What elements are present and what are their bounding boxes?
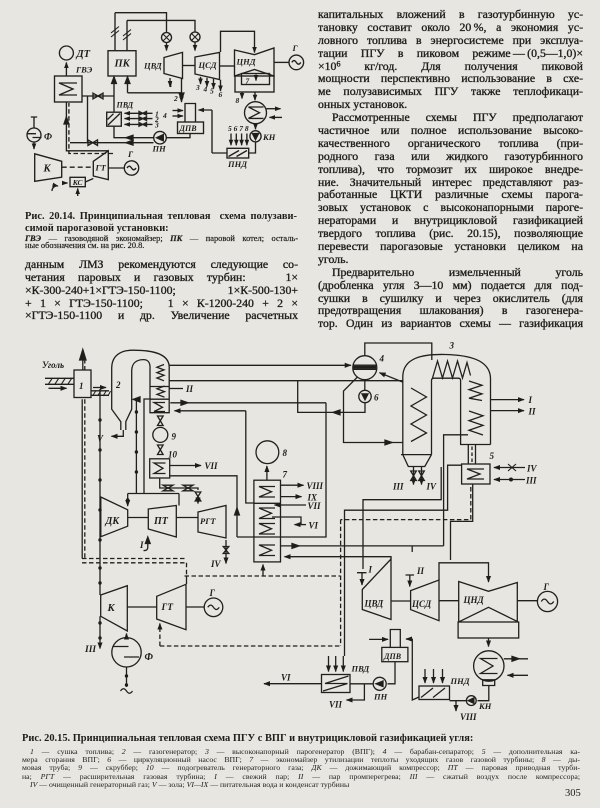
generator G (gas) [124, 161, 138, 175]
main steam run [115, 13, 167, 33]
svg-text:2: 2 [115, 380, 121, 390]
extraction drop to PVD [344, 557, 346, 656]
extraction 3 [200, 77, 202, 84]
svg-text:3: 3 [195, 83, 200, 92]
extraction 8 [241, 92, 243, 99]
svg-text:ПТ: ПТ [153, 516, 169, 527]
shaft CSD-CND [220, 65, 235, 67]
svg-text:Г: Г [543, 582, 550, 592]
GVE water drop pipe [87, 96, 89, 143]
sigma cooler [154, 403, 165, 412]
svg-text:V: V [97, 434, 104, 444]
scrubber 9 [153, 427, 168, 442]
VPG right wall [490, 378, 492, 445]
svg-text:VII: VII [205, 461, 219, 471]
steam into deaerator [369, 638, 388, 640]
valve below scrubber [158, 445, 164, 455]
wire filter to compressor [33, 142, 35, 149]
CVD exhaust line to economizer [285, 557, 392, 559]
heater steam arrows 5-8 [230, 134, 232, 146]
syngas cooler coil [157, 365, 164, 381]
economizer 7 [254, 480, 281, 562]
fig 20.15 caption [22, 734, 582, 744]
reheat II stub [406, 575, 415, 587]
dotted gas line to booster DK [135, 399, 137, 493]
svg-text:I: I [368, 565, 373, 575]
wire GT to generator [108, 167, 124, 169]
LP turbine CND2 [459, 582, 518, 623]
fresh steam I line [363, 467, 441, 569]
stack 8 [256, 441, 279, 464]
air intake [126, 667, 128, 687]
condensate riser PND to DPV [412, 639, 419, 700]
riser into drum [380, 373, 403, 382]
svg-text:VII: VII [329, 700, 343, 710]
bypass gas duct dashed [69, 103, 113, 154]
shaft K-GT2 [127, 606, 156, 608]
wire PND to deaerator [199, 110, 228, 153]
svg-text:КН: КН [478, 701, 492, 711]
HP turbine CVD [164, 52, 183, 78]
svg-text:5: 5 [210, 87, 214, 96]
arch superheater coil [433, 361, 471, 378]
svg-text:II: II [528, 407, 537, 417]
svg-text:К: К [43, 164, 52, 175]
blowdown III [413, 467, 415, 485]
svg-text:VIII: VIII [307, 481, 324, 491]
shaft DK-PT [128, 517, 149, 519]
air filter F1 [27, 128, 41, 142]
svg-text:6: 6 [219, 90, 223, 99]
stream VIII [281, 484, 304, 486]
steam line drum to superheater [365, 343, 432, 360]
page number [565, 788, 581, 799]
economizer steam line to reheat [281, 545, 444, 547]
stream VI out [264, 683, 322, 685]
coal line below dryer [81, 399, 83, 558]
svg-text:ГТ: ГТ [161, 603, 175, 613]
svg-text:4: 4 [162, 111, 167, 120]
svg-text:Ф: Ф [44, 133, 52, 143]
stack DT [59, 46, 73, 60]
air vent III down [99, 616, 101, 648]
flue to stack [266, 466, 268, 480]
heater steam arrows [424, 669, 426, 683]
svg-text:II: II [416, 566, 425, 576]
svg-text:2: 2 [173, 94, 178, 103]
feed pump PN [154, 131, 167, 144]
svg-text:ПВД: ПВД [116, 101, 134, 110]
downcomer to furnace [344, 377, 403, 443]
GT exhaust duct [66, 102, 108, 151]
vent arrow up [82, 353, 84, 370]
stream VIII down [455, 701, 457, 711]
svg-text:8: 8 [236, 96, 240, 105]
right text column [318, 8, 583, 330]
wire valve to HPT [166, 43, 168, 51]
gas line to RGT [160, 478, 198, 490]
drive steam turbine PT [148, 506, 176, 538]
svg-text:Г: Г [209, 588, 216, 598]
figure 20.15 schematic [0, 340, 600, 722]
fresh steam I stub [357, 573, 367, 585]
feedwater line to GVE [70, 142, 154, 144]
gas IV into combustor [494, 467, 525, 469]
wire GVE to stack [65, 63, 67, 77]
gasifier vessel 2 [112, 350, 170, 368]
ash outlet V [112, 430, 124, 436]
generator G (steam) [289, 55, 304, 70]
dashed recycle left [84, 399, 86, 558]
shaft K-GT [62, 166, 94, 168]
svg-text:ГВЭ: ГВЭ [75, 65, 93, 75]
bypass jog [272, 517, 301, 525]
dashed gas into GT [159, 624, 161, 647]
svg-text:ПНД: ПНД [450, 676, 471, 686]
wire KC to GT [85, 179, 93, 183]
hot gas from combustor down [451, 484, 473, 560]
svg-text:6: 6 [374, 393, 379, 403]
extraction line 2 to PVD [125, 118, 153, 120]
extraction line 3 to PVD [125, 123, 153, 125]
svg-text:ПН: ПН [373, 692, 388, 702]
figure 20.14 schematic [0, 0, 310, 205]
gas duct to combustor [468, 445, 475, 465]
dashed runs bottom [82, 559, 187, 563]
cold reheat line to VPG [345, 465, 462, 557]
wire into RGT [197, 501, 199, 504]
wire pump to PND [249, 142, 256, 153]
coil 2 [157, 386, 165, 397]
wire filter to K [126, 634, 128, 638]
svg-text:ПК: ПК [114, 59, 131, 70]
valve [183, 485, 193, 491]
steam boiler PK [108, 51, 136, 76]
stop valve 2 [190, 32, 200, 42]
condensate pump KN [250, 131, 261, 142]
shaft CND-generator [274, 61, 289, 63]
compressor K [35, 154, 62, 182]
cooling water in [508, 674, 529, 676]
wire condenser to pump [255, 124, 257, 130]
water loop piping [281, 403, 327, 537]
valve [93, 93, 103, 99]
extraction 6 [220, 80, 222, 91]
wire GT2 to generator [186, 606, 204, 608]
LP turbine CND [235, 48, 275, 76]
svg-text:II: II [185, 384, 194, 394]
cooling water in [270, 116, 283, 118]
circulation pump 6 [359, 390, 371, 402]
extraction 5 [213, 79, 215, 89]
wire DPV to PN [388, 662, 396, 684]
svg-text:ДТ: ДТ [76, 49, 91, 60]
svg-text:4: 4 [203, 85, 208, 94]
stream VI in [295, 524, 307, 526]
gas line heater 10 to water loop [170, 476, 237, 537]
svg-text:IV: IV [426, 482, 438, 492]
wire drum to pump 6 [364, 380, 366, 391]
svg-text:1: 1 [169, 80, 173, 89]
circulation line to coils [298, 381, 365, 413]
main compressor K [101, 586, 128, 631]
heater steam arrows [328, 656, 330, 672]
shaft PT-RGT [176, 517, 198, 519]
heating steam 4 arrows [173, 110, 184, 112]
shaft CVD-CSD [183, 65, 196, 67]
wire CND to condenser [488, 638, 490, 647]
svg-text:К: К [107, 603, 116, 614]
stream VII in [275, 504, 307, 506]
reheat II out [491, 410, 525, 412]
booster compressor DK [101, 497, 128, 537]
clean gas IV out of RGT [225, 540, 227, 564]
air III into combustor [494, 479, 525, 481]
expansion gas turbine RGT [198, 506, 226, 539]
svg-text:III: III [525, 476, 537, 486]
wire valve to IPT [194, 42, 196, 51]
LP heater PND [227, 148, 249, 158]
main steam riser [114, 13, 116, 51]
svg-text:Г: Г [127, 149, 134, 159]
fuel arrow into KC [77, 189, 79, 197]
blowdown IV [421, 467, 423, 485]
svg-text:VIII: VIII [460, 712, 477, 722]
fresh steam I out [491, 399, 525, 401]
air filter F [112, 638, 141, 667]
feedwater PN to PVD [114, 126, 154, 138]
VPG left wall [402, 376, 404, 455]
svg-text:ДПВ: ДПВ [383, 652, 402, 661]
svg-text:Уголь: Уголь [42, 360, 64, 370]
VPG bottom cone [401, 455, 432, 467]
crossover pipe [221, 31, 255, 52]
left column paragraph [25, 258, 298, 322]
svg-text:ЦНД: ЦНД [463, 595, 485, 605]
deaerator DPV [185, 104, 196, 123]
generator G gas [204, 598, 223, 617]
feedwater VII branch [347, 684, 365, 700]
wire K to KC [62, 182, 68, 184]
wire CND to condenser [254, 92, 256, 100]
svg-text:РГТ: РГТ [200, 516, 216, 526]
dryer box 1 [74, 370, 91, 398]
svg-text:4: 4 [379, 354, 385, 364]
wire DPV to feed pump [167, 134, 190, 138]
condenser housing [235, 76, 274, 92]
HP heater PVD2 [322, 675, 351, 693]
extraction 7 arrow [255, 75, 257, 81]
svg-text:5: 5 [490, 451, 495, 461]
svg-text:ЦСД: ЦСД [411, 599, 432, 609]
svg-text:ПНД: ПНД [227, 159, 248, 169]
IP turbine CSD2 [411, 580, 439, 621]
scrubber column 9 top [150, 367, 169, 413]
break mark [111, 27, 119, 38]
VPG inner box [432, 378, 491, 454]
svg-text:7: 7 [246, 77, 250, 86]
gas turbine GT [93, 151, 108, 180]
HP turbine CVD2 [362, 559, 391, 620]
condenser [245, 102, 267, 124]
svg-text:ЦНД: ЦНД [236, 57, 257, 67]
hot reheat line from VPG [444, 435, 468, 546]
LP heater PND2 [419, 686, 450, 700]
dried coal band to gasifier [93, 387, 106, 389]
svg-text:I: I [528, 395, 533, 405]
extraction 4 [206, 78, 208, 87]
svg-text:ЦСД: ЦСД [198, 60, 218, 70]
VPG steam generator 3 dome [403, 354, 491, 378]
condenser [474, 651, 504, 681]
feed pump PN2 [373, 677, 386, 690]
compressed air line III [99, 389, 101, 595]
inner exhaust box [242, 74, 270, 85]
fig 20.14 caption [25, 211, 297, 236]
wire PVD to boiler [113, 77, 115, 112]
svg-text:I: I [139, 540, 144, 550]
svg-text:Ф: Ф [145, 652, 154, 663]
IP turbine CSD [195, 52, 220, 79]
coal feed hatched band [45, 378, 74, 384]
reheat riser [126, 20, 128, 50]
exhaust arrowhead [64, 117, 69, 124]
svg-text:ПН: ПН [152, 144, 167, 154]
extraction 2 [181, 78, 183, 102]
wire KN to PND [450, 700, 467, 702]
svg-text:3: 3 [449, 341, 455, 351]
extraction 1 [169, 78, 171, 87]
svg-text:IV: IV [210, 559, 222, 569]
right coil B [469, 411, 483, 435]
svg-text:VI: VI [281, 673, 291, 683]
gas turbine GT2 [157, 584, 186, 629]
svg-text:7: 7 [283, 470, 288, 480]
feed water line into scrubber heater [175, 410, 246, 412]
curved air arrow [52, 186, 58, 191]
svg-text:КС: КС [72, 178, 84, 187]
gas heater 10 [150, 459, 170, 478]
right coil A [469, 381, 482, 401]
reheat run [127, 20, 195, 32]
cooling water out [267, 108, 281, 110]
valve vertical [195, 492, 201, 501]
svg-text:5 6 7 8: 5 6 7 8 [228, 124, 249, 133]
svg-text:ЦВД: ЦВД [143, 61, 163, 71]
stream IX [281, 496, 302, 498]
left furnace coil [411, 388, 427, 442]
svg-text:ПВД: ПВД [351, 664, 371, 674]
economizer GVE [55, 76, 83, 102]
gas branch line [128, 399, 179, 506]
flow arrowhead [126, 140, 133, 145]
cooling water out [504, 658, 528, 660]
heated water line to loop [170, 402, 326, 404]
water line GVE out with valve [82, 95, 114, 97]
valve above scrubber drum [158, 416, 164, 426]
circulation supply line to coils [169, 380, 403, 382]
generator G steam [537, 591, 557, 611]
wire to KN [478, 686, 489, 701]
svg-text:КН: КН [262, 132, 276, 142]
crossover to LP [439, 563, 489, 582]
shafts [391, 600, 537, 602]
svg-text:III: III [392, 482, 404, 492]
line II out of scrubber [169, 388, 183, 390]
coal flow arrow [49, 387, 67, 389]
stop valve 1 [162, 33, 172, 43]
valve [163, 485, 173, 491]
svg-text:1: 1 [79, 381, 84, 391]
feed line econ up [246, 411, 254, 503]
svg-text:ДПВ: ДПВ [179, 124, 198, 133]
svg-text:Г: Г [292, 43, 299, 53]
line VII from heater 10 [170, 465, 201, 467]
svg-text:IV: IV [526, 464, 538, 474]
svg-text:VII: VII [308, 501, 322, 511]
fresh steam I into PT [144, 538, 148, 551]
GT exhaust to economizer [186, 576, 188, 584]
valve [88, 140, 98, 146]
feedwater to PVD [350, 683, 373, 685]
aux steam line to deaerator [128, 83, 182, 93]
combustion chamber KC [70, 177, 85, 186]
svg-text:10: 10 [168, 450, 178, 460]
condenser neck [483, 680, 495, 686]
svg-text:8: 8 [283, 448, 288, 458]
HP heater PVD [107, 112, 122, 126]
svg-text:9: 9 [172, 432, 177, 442]
extraction line 1 to PVD [125, 112, 153, 114]
extra combustor 5 [462, 464, 490, 484]
svg-text:VI: VI [309, 521, 319, 531]
drum separator 4 [353, 356, 377, 380]
deaerator DPV2 [390, 630, 400, 648]
svg-text:ГТ: ГТ [95, 163, 107, 173]
svg-text:ЦВД: ЦВД [364, 599, 385, 609]
svg-text:3: 3 [154, 121, 159, 130]
svg-text:ДК: ДК [105, 516, 121, 527]
svg-text:III: III [84, 645, 96, 655]
condensate pump KN [466, 696, 476, 706]
break mark [123, 30, 131, 41]
drum return line from scrubber coil [169, 364, 351, 366]
